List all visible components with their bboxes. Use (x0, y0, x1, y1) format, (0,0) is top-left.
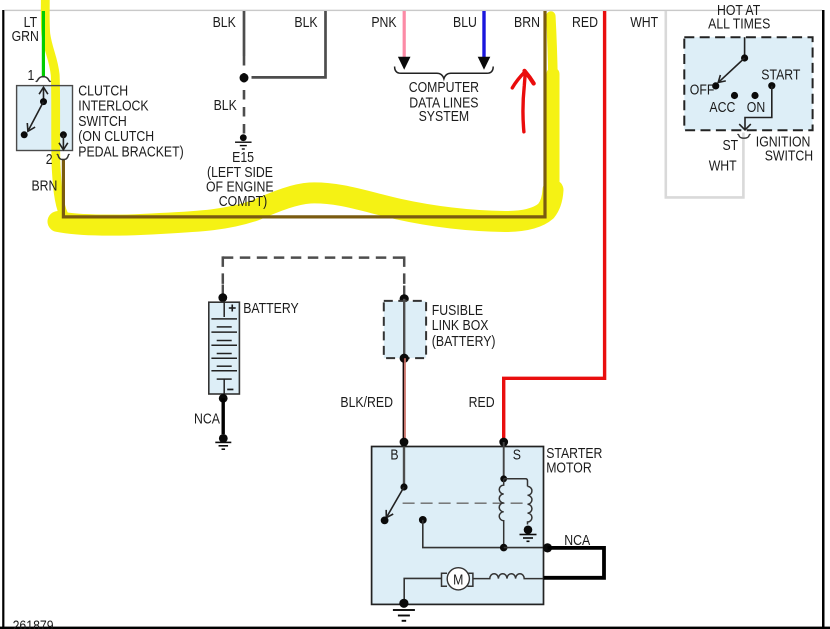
svg-text:BRN: BRN (514, 14, 540, 30)
svg-text:2: 2 (46, 151, 53, 167)
dashed battery feed wires (223, 256, 404, 286)
starter bus wire to NCA (504, 547, 548, 549)
label HOT AT ALL TIMES (708, 2, 770, 32)
svg-text:SWITCH: SWITCH (765, 147, 813, 163)
terminal dot B (400, 438, 409, 447)
svg-text:ON: ON (747, 99, 765, 115)
wire BLK 2 (252, 11, 326, 77)
label E15 block (206, 149, 274, 209)
clutch interlock switch box fill (17, 86, 73, 151)
ST connector arc (738, 134, 751, 138)
starter switch wire from B (403, 447, 405, 488)
page border bottom (0, 627, 830, 629)
contact dot OFF (712, 82, 719, 89)
wire BLK 1 dashed lower part (243, 56, 246, 135)
svg-text:SYSTEM: SYSTEM (419, 108, 470, 124)
svg-text:1: 1 (27, 67, 34, 83)
battery minus sign (227, 389, 233, 391)
svg-text:RED: RED (469, 394, 495, 410)
fusible link top dot (400, 294, 409, 303)
svg-text:BRN: BRN (31, 177, 57, 193)
svg-text:NCA: NCA (194, 410, 221, 426)
svg-text:INTERLOCK: INTERLOCK (78, 97, 148, 113)
clutch pin2 dot (60, 131, 67, 138)
clutch switch pivot dot (40, 98, 47, 105)
clutch switch up arrow (39, 87, 48, 101)
svg-text:GRN: GRN (12, 28, 39, 44)
battery top dot (218, 293, 227, 302)
starter internal dashed link (403, 502, 523, 504)
pin 1 connector arc (36, 77, 51, 82)
svg-text:CLUTCH: CLUTCH (78, 82, 128, 98)
battery bottom dot (219, 394, 228, 403)
starter wire contact to bus (423, 520, 504, 548)
svg-text:START: START (761, 66, 801, 82)
svg-text:(ON CLUTCH: (ON CLUTCH (78, 128, 154, 144)
wire WHT (light gray path) (666, 11, 744, 197)
arrowhead PNK (398, 57, 411, 70)
clutch switch arm with arrow (27, 102, 43, 132)
arrowhead BLU (478, 57, 491, 70)
svg-text:S: S (513, 447, 521, 463)
NCA thick loop wire (544, 548, 605, 578)
ground battery (215, 434, 231, 450)
ignition rotor arm arrow (718, 58, 744, 83)
svg-text:PNK: PNK (371, 14, 396, 30)
motor feed wire left (404, 578, 441, 603)
solenoid left coil (pull-in winding) (499, 479, 503, 548)
terminal dot S (499, 438, 508, 447)
ignition ST wire with arrow (739, 86, 772, 130)
junction dot (240, 73, 249, 82)
svg-text:261879: 261879 (13, 617, 54, 629)
wire BRN (brown path) (63, 11, 545, 217)
solenoid right coil (hold-in winding) (528, 486, 532, 524)
svg-text:NCA: NCA (564, 532, 591, 548)
svg-text:BLK: BLK (294, 14, 317, 30)
fusible link wire (403, 299, 405, 358)
starter switch arm with arrow (386, 487, 404, 518)
solenoid right branch wire (504, 479, 528, 487)
fusible link bottom dot (400, 354, 409, 363)
ignition switch dashed box (684, 37, 812, 130)
svg-text:WHT: WHT (630, 14, 659, 30)
label CLUTCH INTERLOCK SWITCH (78, 82, 183, 160)
svg-text:OFF: OFF (690, 81, 715, 97)
label STARTER MOTOR (546, 445, 602, 476)
svg-text:BLK: BLK (213, 14, 236, 30)
starter switch pivot dot (400, 483, 407, 490)
svg-text:B: B (390, 447, 398, 463)
motor left brush bracket (442, 573, 448, 586)
red annotation arrow (512, 71, 533, 132)
ignition pivot dot (741, 54, 748, 61)
page border right (822, 10, 825, 628)
highlighter yellow stroke (45, 0, 553, 225)
svg-text:ACC: ACC (709, 99, 735, 115)
svg-text:SWITCH: SWITCH (78, 113, 126, 129)
motor M circle (447, 568, 469, 590)
svg-text:RED: RED (572, 14, 598, 30)
clutch switch contact dot (21, 131, 28, 138)
battery plus sign (229, 305, 236, 312)
fusible link box (384, 301, 426, 358)
NCA dot starter (543, 543, 552, 552)
solenoid top dot (500, 475, 507, 482)
svg-text:ALL TIMES: ALL TIMES (708, 15, 770, 31)
battery box (209, 302, 240, 394)
contact dot ON (751, 92, 758, 99)
starter contact 2 dot (419, 516, 427, 524)
contact dot ACC (731, 92, 738, 99)
label IGNITION SWITCH (756, 133, 813, 163)
wire PNK (pink) (403, 11, 406, 58)
wire BLK/RED (403, 358, 405, 442)
battery plates (211, 302, 237, 394)
battery NCA lead (221, 398, 224, 434)
svg-text:PEDAL BRACKET): PEDAL BRACKET) (78, 143, 183, 159)
motor right brush bracket (467, 573, 473, 586)
svg-text:M: M (453, 571, 463, 587)
starter switch contact dot (381, 517, 389, 525)
battery feed solid stubs (223, 285, 404, 299)
svg-text:LINK BOX: LINK BOX (432, 317, 489, 333)
svg-text:BLK: BLK (214, 97, 237, 113)
svg-text:MOTOR: MOTOR (546, 459, 592, 475)
svg-text:(BATTERY): (BATTERY) (432, 333, 496, 349)
clutch interlock switch box (17, 86, 73, 151)
svg-text:COMPT): COMPT) (219, 193, 267, 209)
motor armature inductor (473, 574, 544, 579)
solenoid bus dot (500, 544, 508, 552)
ground starter motor (393, 599, 415, 622)
wire BLU (blue) (482, 11, 485, 58)
brace computer data lines (395, 67, 494, 79)
ignition feed wire (744, 37, 746, 58)
clutch pin2 down arrow (59, 135, 68, 150)
label COMPUTER DATA LINES SYSTEM (409, 79, 479, 124)
label LT GRN (12, 14, 39, 44)
svg-text:COMPUTER: COMPUTER (409, 79, 479, 95)
contact dot START (768, 82, 775, 89)
svg-text:ST: ST (722, 137, 738, 153)
svg-text:WHT: WHT (709, 157, 738, 173)
wire LT GRN (green) (42, 11, 45, 78)
svg-text:BLU: BLU (453, 14, 477, 30)
top frame line (4, 10, 822, 11)
svg-text:BATTERY: BATTERY (243, 300, 299, 316)
pin 2 connector arc (57, 154, 70, 159)
label FUSIBLE LINK BOX (BATTERY) (432, 302, 496, 349)
ground E15 (235, 134, 252, 149)
page border left (2, 10, 4, 628)
wire RED (red path to starter S) (504, 11, 605, 438)
wire BLK 1 (243, 11, 246, 56)
svg-text:BLK/RED: BLK/RED (340, 394, 393, 410)
ground solenoid (520, 526, 537, 543)
solenoid feed wire from S (503, 442, 505, 479)
starter motor box (372, 447, 544, 605)
